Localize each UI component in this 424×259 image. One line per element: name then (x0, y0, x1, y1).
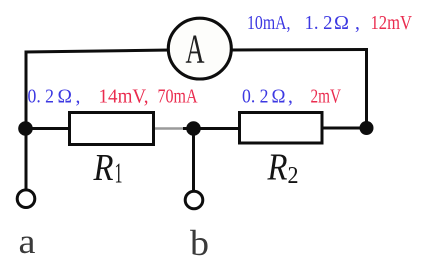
svg-text:,: , (288, 86, 293, 107)
svg-text:A: A (186, 26, 205, 72)
junction node (right) (360, 121, 374, 135)
wire right vertical (top corner down to right node) (365, 48, 368, 128)
wire: node b to R2 (193, 127, 241, 130)
junction node (left) (18, 121, 33, 136)
svg-text:2: 2 (288, 163, 299, 189)
svg-text:Ω: Ω (334, 12, 349, 34)
wire: node b down to terminal b (192, 128, 195, 191)
svg-text:,: , (355, 13, 360, 34)
terminal b (open circle) (185, 191, 203, 209)
svg-text:R: R (267, 147, 288, 189)
wire: R2 right to right node (321, 127, 366, 130)
svg-text:1: 1 (115, 158, 123, 190)
svg-text:,: , (76, 86, 81, 107)
svg-text:Ω: Ω (272, 85, 286, 107)
svg-text:14mV,: 14mV, (99, 86, 149, 107)
svg-text:12mV: 12mV (371, 13, 413, 34)
wire top-right horizontal (ammeter to right corner) (230, 48, 368, 52)
wire left vertical (top corner down to left node) (25, 51, 28, 129)
svg-text:0. 2: 0. 2 (242, 86, 269, 107)
svg-text:10mA,: 10mA, (247, 13, 291, 34)
svg-text:Ω: Ω (58, 85, 73, 107)
wire: R1 right to node b (partly grey) (155, 127, 184, 129)
svg-text:a: a (19, 222, 36, 259)
svg-text:1. 2: 1. 2 (305, 13, 333, 34)
ammeter A (168, 18, 231, 79)
wire: left node down to terminal a (25, 128, 28, 190)
terminal a (open circle) (17, 190, 35, 208)
resistor R1 body (70, 113, 154, 145)
svg-text:2mV: 2mV (311, 86, 342, 107)
wire top-left horizontal (left corner to ammeter) (25, 50, 171, 52)
svg-text:0. 2: 0. 2 (28, 86, 55, 107)
wire middle: left node to R1 (25, 127, 70, 130)
resistor R2 body (240, 113, 323, 144)
svg-text:R: R (93, 147, 114, 189)
svg-text:70mA: 70mA (158, 86, 198, 107)
svg-text:b: b (190, 223, 209, 259)
junction node b (middle) (186, 121, 201, 136)
